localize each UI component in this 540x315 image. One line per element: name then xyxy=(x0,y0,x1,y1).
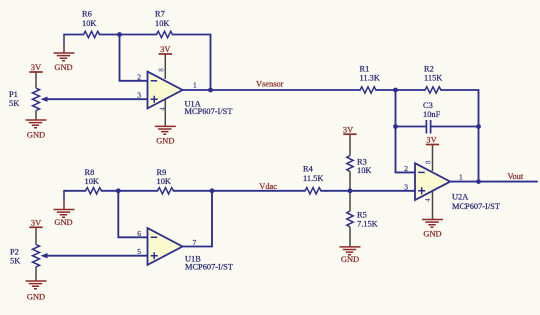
svg-text:8: 8 xyxy=(158,68,166,72)
svg-text:R2: R2 xyxy=(424,64,434,73)
svg-text:10nF: 10nF xyxy=(423,110,441,119)
svg-text:R9: R9 xyxy=(157,168,167,177)
svg-text:R5: R5 xyxy=(357,210,367,219)
svg-text:6: 6 xyxy=(137,229,141,238)
svg-text:1: 1 xyxy=(193,80,197,89)
svg-text:R4: R4 xyxy=(303,165,314,174)
svg-text:Vout: Vout xyxy=(508,172,524,181)
svg-text:GND: GND xyxy=(54,63,72,72)
svg-text:7.15K: 7.15K xyxy=(357,219,378,228)
svg-text:10K: 10K xyxy=(357,166,371,175)
svg-text:3V: 3V xyxy=(343,125,353,134)
svg-text:1: 1 xyxy=(459,172,463,181)
svg-text:MCP607-I/ST: MCP607-I/ST xyxy=(452,202,500,211)
svg-text:GND: GND xyxy=(27,293,45,302)
svg-text:P2: P2 xyxy=(10,248,19,257)
svg-text:3: 3 xyxy=(137,91,141,100)
svg-text:Vsensor: Vsensor xyxy=(256,80,284,89)
svg-text:5: 5 xyxy=(137,247,141,256)
svg-text:4: 4 xyxy=(159,107,167,111)
svg-text:GND: GND xyxy=(341,255,359,264)
svg-text:10K: 10K xyxy=(85,177,99,186)
svg-text:C3: C3 xyxy=(423,101,433,110)
svg-text:8: 8 xyxy=(425,160,433,164)
svg-text:11.3K: 11.3K xyxy=(360,73,380,82)
svg-text:R1: R1 xyxy=(360,64,370,73)
svg-text:3V: 3V xyxy=(31,63,41,72)
svg-text:10K: 10K xyxy=(157,177,171,186)
svg-text:5K: 5K xyxy=(9,99,19,108)
svg-text:Vdac: Vdac xyxy=(259,182,277,191)
svg-text:4: 4 xyxy=(424,198,432,202)
svg-text:GND: GND xyxy=(54,218,72,227)
svg-text:R7: R7 xyxy=(155,10,165,19)
svg-text:3: 3 xyxy=(404,182,408,191)
svg-text:5K: 5K xyxy=(10,256,20,265)
svg-text:7: 7 xyxy=(193,238,197,247)
svg-text:R6: R6 xyxy=(82,10,92,19)
svg-text:MCP607-I/ST: MCP607-I/ST xyxy=(185,107,233,116)
svg-text:3V: 3V xyxy=(31,219,41,228)
svg-text:2: 2 xyxy=(404,164,408,173)
svg-text:2: 2 xyxy=(137,72,141,81)
svg-text:3V: 3V xyxy=(160,45,170,54)
svg-text:115K: 115K xyxy=(424,73,442,82)
svg-text:10K: 10K xyxy=(82,19,96,28)
svg-text:3V: 3V xyxy=(426,136,436,145)
svg-text:R8: R8 xyxy=(85,168,95,177)
svg-text:MCP607-I/ST: MCP607-I/ST xyxy=(185,262,233,271)
svg-text:U2A: U2A xyxy=(452,192,468,201)
svg-text:11.5K: 11.5K xyxy=(303,174,323,183)
svg-text:10K: 10K xyxy=(155,19,169,28)
svg-text:P1: P1 xyxy=(9,90,18,99)
svg-text:GND: GND xyxy=(156,137,174,146)
svg-text:GND: GND xyxy=(27,131,45,140)
svg-text:GND: GND xyxy=(423,230,441,239)
